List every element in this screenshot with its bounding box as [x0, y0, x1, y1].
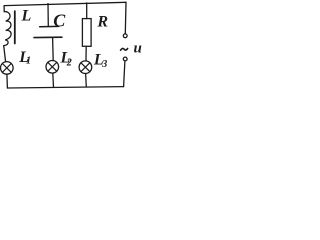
wire lower terminal to bottom border: [124, 61, 125, 87]
wire bottom border: [7, 87, 123, 88]
wire inductor to lamp L1: [4, 46, 6, 62]
svg-text:R: R: [96, 13, 108, 30]
capacitor C: [34, 26, 62, 37]
wire top border: [4, 2, 126, 5]
wire lamp L3 to bottom border: [85, 74, 88, 87]
svg-text:C: C: [53, 11, 66, 31]
terminal upper of AC source: [123, 34, 127, 38]
wire lamp L1 to bottom border: [6, 74, 9, 88]
svg-text:2: 2: [66, 57, 72, 68]
svg-text:3: 3: [101, 59, 107, 70]
svg-text:1: 1: [26, 55, 31, 66]
wire lamp L2 to bottom border: [52, 73, 55, 87]
inductor L iron core bar: [14, 11, 16, 43]
label L2: [60, 50, 72, 69]
AC tilde symbol: [121, 48, 128, 50]
lamp L3: [79, 61, 92, 74]
wire capacitor to lamp L2: [52, 38, 55, 61]
wire resistor to lamp L3: [85, 46, 87, 61]
svg-text:L: L: [21, 7, 32, 24]
wire right border upper: [124, 2, 127, 34]
wire top border to resistor: [86, 3, 88, 19]
lamp L1: [1, 62, 14, 75]
inductor L coil: [4, 6, 11, 46]
lamp L2: [46, 61, 59, 74]
label L3: [93, 51, 107, 70]
terminal lower of AC source: [123, 57, 127, 61]
resistor R: [82, 19, 91, 47]
svg-text:u: u: [134, 40, 142, 56]
wire top border to capacitor: [47, 4, 49, 27]
label L1: [18, 49, 31, 66]
